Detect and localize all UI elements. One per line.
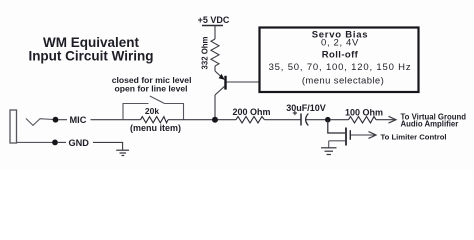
svg-text:GND: GND: [69, 138, 90, 148]
svg-text:30uF/10V: 30uF/10V: [286, 103, 326, 113]
wire capacitor to node B: [306, 119, 325, 121]
resistor 200 Ohm: [232, 107, 270, 123]
wire node B to 100 Ohm: [331, 119, 349, 121]
arrow to virtual ground: [376, 113, 466, 129]
svg-text:Input Circuit Wiring: Input Circuit Wiring: [28, 49, 153, 64]
wire 20k to node A: [168, 119, 213, 121]
svg-text:332 Ohm: 332 Ohm: [201, 36, 210, 69]
arrow to limiter control: [351, 132, 447, 142]
svg-text:20k: 20k: [145, 106, 159, 116]
svg-text:200 Ohm: 200 Ohm: [232, 107, 270, 117]
node MIC dot: [53, 117, 59, 123]
svg-text:Audio Amplifier: Audio Amplifier: [401, 120, 459, 129]
+5 VDC supply: [198, 15, 230, 39]
transistor Q1 PNP: [215, 71, 226, 95]
ground input: [116, 150, 129, 155]
svg-text:(menu selectable): (menu selectable): [302, 76, 384, 87]
wire node A to 200 Ohm: [218, 119, 236, 121]
node A junction dot: [212, 117, 218, 123]
title text: [28, 35, 153, 64]
resistor 100 Ohm: [345, 108, 383, 123]
svg-text:0, 2, 4V: 0, 2, 4V: [321, 38, 359, 49]
servo bias box: [260, 28, 419, 93]
wire node B down to FET drain: [328, 120, 345, 133]
svg-text:MIC: MIC: [70, 115, 87, 125]
node GND dot: [52, 140, 58, 146]
label switch note: [112, 75, 192, 93]
ground limiter: [321, 148, 337, 155]
svg-text:+5 VDC: +5 VDC: [198, 15, 230, 25]
node B junction dot: [325, 117, 331, 123]
svg-text:(menu item): (menu item): [130, 123, 181, 133]
capacitor 30uF/10V: [286, 103, 326, 126]
wire MIC rail to 20k: [91, 119, 141, 121]
wire 200 Ohm to capacitor: [264, 119, 300, 121]
svg-text:35, 50, 70, 100, 120, 150 Hz: 35, 50, 70, 100, 120, 150 Hz: [269, 62, 412, 73]
resistor 332 Ohm: [201, 36, 220, 69]
svg-text:Roll-off: Roll-off: [322, 50, 359, 61]
wire MIC rail left: [58, 119, 67, 121]
svg-text:To Limiter Control: To Limiter Control: [381, 132, 447, 141]
wire collector to node: [214, 95, 216, 120]
wire emitter lead: [214, 66, 216, 71]
wire base lead: [227, 81, 259, 83]
svg-text:open for line level: open for line level: [114, 83, 187, 93]
wire GND rail right: [93, 142, 123, 150]
jack connector J1: [10, 110, 53, 143]
switch bypass: [123, 96, 184, 120]
resistor 20k: [130, 106, 181, 133]
wire GND rail left: [58, 141, 66, 143]
transistor FET limiter: [329, 128, 351, 148]
